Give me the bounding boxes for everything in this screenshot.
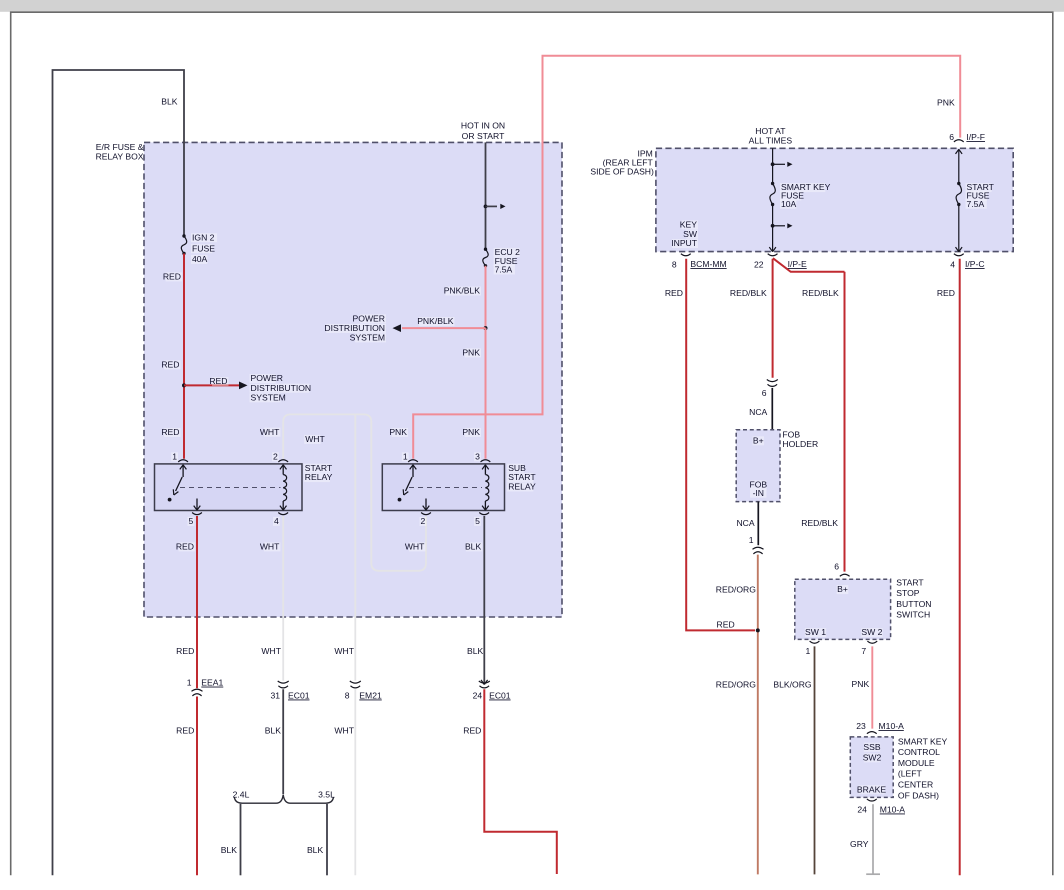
svg-text:6: 6	[949, 132, 954, 142]
svg-text:5: 5	[189, 516, 194, 526]
svg-text:31: 31	[270, 691, 280, 701]
svg-text:RED: RED	[717, 620, 735, 630]
svg-text:INPUT: INPUT	[671, 238, 698, 248]
label SW2	[861, 628, 882, 637]
branch arrow 1	[771, 162, 775, 166]
label B+	[837, 585, 849, 594]
sub relay coil	[484, 465, 486, 475]
svg-text:CENTER: CENTER	[898, 780, 933, 790]
svg-text:DISTRIBUTION: DISTRIBUTION	[251, 383, 312, 393]
wire RED BCM-MM down to junction	[686, 259, 755, 631]
start relay coil	[282, 465, 284, 475]
svg-text:MODULE: MODULE	[898, 758, 935, 768]
wire WHT below EM21	[354, 689, 356, 875]
start relay pin 2 connector	[278, 460, 288, 462]
svg-text:7.5A: 7.5A	[495, 265, 513, 275]
svg-text:24: 24	[473, 691, 483, 701]
svg-text:SW2: SW2	[863, 753, 882, 763]
svg-text:7.5A: 7.5A	[967, 199, 985, 209]
svg-text:RED: RED	[176, 542, 194, 552]
wire BLK from battery	[53, 70, 185, 875]
svg-text:HOT IN ON: HOT IN ON	[461, 121, 505, 131]
connector M10-A pin 24	[867, 799, 877, 801]
wire BLK 3.5L branch	[326, 804, 328, 876]
wire NCA to FOB holder	[771, 388, 773, 430]
label POWER DISTRIBUTION SYSTEM mid	[360, 314, 386, 323]
svg-text:-IN: -IN	[753, 488, 764, 498]
svg-text:BLK: BLK	[161, 96, 178, 106]
svg-text:1: 1	[172, 451, 177, 461]
wire smart key fuse vertical	[772, 148, 774, 183]
fuse SMART KEY 10A	[770, 184, 775, 205]
svg-text:RELAY BOX: RELAY BOX	[96, 152, 144, 162]
svg-text:BRAKE: BRAKE	[857, 784, 886, 794]
svg-text:7: 7	[861, 646, 866, 656]
SMART KEY CONTROL MODULE box	[850, 737, 893, 798]
branch arrow 2	[771, 224, 775, 228]
sub relay middle dashed line	[409, 487, 482, 489]
svg-text:24: 24	[857, 805, 867, 815]
wire PNK from SW2 down	[871, 646, 873, 728]
svg-text:PNK: PNK	[937, 98, 955, 108]
svg-text:RELAY: RELAY	[508, 482, 536, 492]
svg-text:PNK: PNK	[462, 348, 480, 358]
wire BLK 2.4L branch	[240, 804, 242, 876]
wire BLK hot in on or start	[485, 142, 487, 249]
label WHT below pin 4	[264, 542, 280, 551]
svg-text:I/P-E: I/P-E	[788, 259, 807, 269]
svg-text:STOP: STOP	[896, 588, 920, 598]
wire PNK top feed from IP-F	[413, 56, 960, 459]
relay START RELAY box	[155, 464, 303, 511]
svg-text:2: 2	[421, 516, 426, 526]
svg-text:M10-A: M10-A	[880, 805, 906, 815]
svg-text:10A: 10A	[781, 199, 797, 209]
svg-text:HOLDER: HOLDER	[782, 439, 818, 449]
svg-text:BCM-MM: BCM-MM	[690, 259, 726, 269]
svg-text:BUTTON: BUTTON	[896, 599, 931, 609]
svg-text:B+: B+	[837, 584, 848, 594]
connector 6 above FOB holder	[767, 380, 778, 382]
svg-text:WHT: WHT	[334, 646, 354, 656]
start fuse internal wire	[958, 149, 960, 183]
svg-text:CONTROL: CONTROL	[898, 747, 940, 757]
svg-text:SIDE OF DASH): SIDE OF DASH)	[590, 166, 654, 176]
sub relay switch dot	[398, 498, 402, 502]
IPM box	[656, 148, 1013, 251]
svg-text:GRY: GRY	[850, 839, 869, 849]
connector B+ pin 6	[840, 574, 850, 576]
svg-text:START: START	[896, 578, 924, 588]
svg-text:4: 4	[950, 259, 955, 269]
fuse START FUSE 7.5A	[956, 184, 961, 205]
wire BLK/ORG from SW1 down	[814, 646, 816, 874]
label SSB SW2	[864, 743, 880, 752]
svg-text:5: 5	[475, 516, 480, 526]
svg-text:SW 2: SW 2	[861, 627, 882, 637]
svg-text:23: 23	[856, 721, 866, 731]
svg-text:PNK: PNK	[462, 427, 480, 437]
label ECU2 FUSE 7.5A	[494, 248, 520, 257]
E/R fuse and relay box	[144, 142, 562, 617]
sub relay pin 1 connector	[408, 460, 418, 462]
label POWER DISTRIBUTION SYSTEM left	[250, 374, 276, 383]
svg-text:3.5L: 3.5L	[318, 790, 335, 800]
label BRAKE	[859, 785, 885, 794]
svg-text:DISTRIBUTION: DISTRIBUTION	[324, 323, 385, 333]
wire GRY from pin 24 down	[872, 804, 874, 874]
label FOB -IN	[750, 480, 766, 489]
start relay pin 1 contact arrow	[182, 465, 184, 477]
label RED	[166, 272, 182, 281]
svg-text:BLK: BLK	[265, 726, 282, 736]
start relay pin 5 arrow	[196, 499, 198, 511]
wire RED below EEA1	[196, 697, 198, 876]
svg-text:POWER: POWER	[251, 373, 283, 383]
label SW1	[805, 628, 826, 637]
relay SUB START RELAY box	[382, 464, 504, 511]
label RED on branch	[212, 377, 228, 386]
svg-text:M10-A: M10-A	[879, 721, 905, 731]
connector EM21 pin 8	[350, 681, 361, 683]
svg-text:BLK: BLK	[221, 845, 238, 855]
svg-text:NCA: NCA	[736, 518, 754, 528]
svg-text:WHT: WHT	[260, 427, 280, 437]
label PNK	[465, 428, 481, 437]
svg-text:FUSE: FUSE	[192, 243, 215, 253]
svg-text:BLK: BLK	[465, 542, 482, 552]
wire BLK sub relay pin5 down to EC01 24	[483, 516, 485, 685]
wire RED/BLK pin 22 down to FOB connector	[772, 259, 774, 378]
svg-text:EEA1: EEA1	[201, 678, 223, 688]
label SMART KEY FUSE 10A	[780, 183, 825, 192]
label WHT above pin2	[264, 428, 280, 437]
connector BCM-MM pin 8	[681, 254, 691, 256]
wire RED start relay pin5 down	[196, 516, 198, 688]
wire PNK/BLK from ECU2 fuse down	[485, 266, 487, 328]
svg-text:RED/ORG: RED/ORG	[716, 585, 756, 595]
start relay switch blade	[176, 477, 183, 491]
svg-text:40A: 40A	[192, 254, 208, 264]
svg-text:RED/BLK: RED/BLK	[730, 288, 767, 298]
label RED	[164, 360, 180, 369]
label B+ in FOB holder	[753, 436, 765, 445]
junction dot PNK/BLK	[484, 326, 488, 330]
wire RED branch to power distribution system	[184, 384, 239, 386]
label PNK	[465, 348, 481, 357]
start relay pin 1 connector	[178, 460, 188, 462]
wire WHT start relay pin2 routing	[283, 414, 426, 570]
svg-text:SSB: SSB	[863, 742, 880, 752]
svg-text:SW 1: SW 1	[805, 627, 826, 637]
svg-text:6: 6	[834, 562, 839, 572]
svg-text:BLK: BLK	[467, 646, 484, 656]
svg-text:8: 8	[672, 259, 677, 269]
svg-text:1: 1	[403, 451, 408, 461]
START STOP BUTTON SWITCH box	[795, 579, 891, 639]
wire RED/ORG down from connector 1	[757, 555, 759, 875]
svg-text:PNK/BLK: PNK/BLK	[444, 286, 481, 296]
svg-text:1: 1	[187, 677, 192, 687]
sub relay pin 1 contact arrow	[412, 465, 414, 477]
svg-text:EM21: EM21	[359, 691, 382, 701]
svg-text:WHT: WHT	[261, 646, 281, 656]
svg-text:RELAY: RELAY	[305, 472, 333, 482]
svg-text:ALL TIMES: ALL TIMES	[749, 136, 793, 146]
sub relay pin 5 connector	[479, 513, 489, 515]
label WHT below sub relay pin 2	[409, 542, 425, 551]
fuse IGN2 40A	[181, 236, 186, 254]
svg-text:WHT: WHT	[305, 434, 325, 444]
connector EC01 pin 31	[278, 681, 289, 683]
engine split brace	[234, 795, 333, 804]
wire RED IP-C down	[959, 259, 961, 876]
svg-text:SYSTEM: SYSTEM	[350, 333, 385, 343]
svg-text:OF DASH): OF DASH)	[898, 790, 939, 800]
wire PNK/BLK branch to power distribution system	[402, 327, 486, 329]
svg-text:B+: B+	[753, 435, 764, 445]
label RED below pin 5	[179, 542, 195, 551]
wire PNK from junction to sub start relay pin 3	[485, 328, 487, 459]
wire WHT tee to EM21	[354, 414, 356, 680]
svg-text:1: 1	[806, 646, 811, 656]
wire NCA from FOB-IN down	[757, 502, 759, 546]
svg-text:RED/ORG: RED/ORG	[716, 679, 756, 689]
svg-text:RED: RED	[209, 376, 227, 386]
svg-text:I/P-C: I/P-C	[965, 259, 985, 269]
wire RED/BLK branch diagonal to start stop button	[773, 258, 845, 272]
svg-text:I/P-F: I/P-F	[966, 132, 985, 142]
svg-text:(LEFT: (LEFT	[898, 769, 923, 779]
connector SW1 pin 1	[810, 641, 820, 643]
svg-text:NCA: NCA	[749, 407, 767, 417]
wire WHT start relay pin4 down to EC01	[282, 516, 284, 681]
start relay pin 5 connector	[192, 513, 202, 515]
svg-text:BLK/ORG: BLK/ORG	[773, 679, 812, 689]
svg-text:SYSTEM: SYSTEM	[251, 392, 286, 402]
svg-text:8: 8	[345, 691, 350, 701]
sub relay switch blade	[406, 477, 413, 491]
svg-text:PNK: PNK	[389, 427, 407, 437]
svg-text:RED/BLK: RED/BLK	[802, 288, 839, 298]
label START RELAY	[304, 464, 330, 473]
connector SW2 pin 7	[867, 641, 877, 643]
svg-text:WHT: WHT	[334, 726, 354, 736]
label PNK/BLK	[445, 287, 481, 296]
connector IP-E pin 22	[768, 254, 778, 256]
svg-text:POWER: POWER	[353, 314, 385, 324]
svg-text:IGN 2: IGN 2	[192, 232, 215, 242]
svg-text:6: 6	[762, 388, 767, 398]
wire RED from IGN2 fuse to start relay pin 1	[183, 254, 185, 459]
svg-text:EC01: EC01	[489, 691, 511, 701]
FOB HOLDER box	[736, 430, 780, 502]
svg-text:WHT: WHT	[405, 542, 425, 552]
svg-text:BLK: BLK	[307, 845, 324, 855]
label PNK/BLK on branch	[419, 317, 455, 326]
label BLK below sub relay pin 5	[466, 542, 482, 551]
svg-text:EC01: EC01	[288, 691, 310, 701]
svg-text:WHT: WHT	[260, 542, 280, 552]
start relay pin 4 connector	[278, 513, 288, 515]
svg-text:2: 2	[273, 451, 278, 461]
connector EC01 pin 24	[479, 681, 490, 683]
svg-text:22: 22	[754, 259, 764, 269]
sub relay pin 3 connector	[481, 460, 491, 462]
label WHT routing	[304, 435, 320, 444]
label SUB START RELAY	[507, 464, 523, 473]
label IGN2 FUSE 40A	[191, 233, 217, 242]
sub relay pin 2 arrow	[425, 499, 427, 511]
svg-text:PNK: PNK	[852, 679, 870, 689]
wire BLK below EC01 31	[282, 689, 284, 794]
start relay switch dot	[168, 498, 172, 502]
svg-text:PNK/BLK: PNK/BLK	[417, 316, 454, 326]
svg-text:RED: RED	[176, 726, 194, 736]
svg-text:RED: RED	[161, 360, 179, 370]
branch arrow to right	[484, 205, 488, 209]
svg-text:SMART KEY: SMART KEY	[898, 736, 948, 746]
connector IP-F pin 6	[954, 140, 964, 142]
wire RED below EC01 24	[484, 689, 557, 874]
svg-text:RED/BLK: RED/BLK	[801, 518, 838, 528]
label RED	[164, 428, 180, 437]
svg-text:3: 3	[475, 451, 480, 461]
label START FUSE 7.5A	[966, 183, 992, 192]
svg-text:SWITCH: SWITCH	[896, 609, 930, 619]
label KEY SW INPUT	[682, 220, 698, 229]
svg-text:RED: RED	[176, 646, 194, 656]
svg-text:HOT AT: HOT AT	[755, 126, 786, 136]
label PNK at sub relay pin 1	[392, 428, 408, 437]
svg-text:RED: RED	[665, 288, 683, 298]
connector IP-C pin 4	[954, 254, 964, 256]
svg-text:RED: RED	[163, 272, 181, 282]
fuse ECU2 7.5A	[483, 249, 488, 266]
junction dot RED	[756, 628, 760, 632]
pin 22 exit arrow	[769, 247, 776, 252]
junction dot on RED wire	[182, 383, 186, 387]
svg-text:RED: RED	[161, 427, 179, 437]
svg-text:RED: RED	[463, 726, 481, 736]
top grey bar	[0, 0, 1064, 12]
svg-text:4: 4	[274, 516, 279, 526]
sub relay pin 2 connector	[421, 513, 431, 515]
svg-text:OR START: OR START	[462, 131, 505, 141]
svg-text:1: 1	[749, 535, 754, 545]
relay middle dashed line	[180, 487, 281, 489]
svg-text:RED: RED	[937, 288, 955, 298]
